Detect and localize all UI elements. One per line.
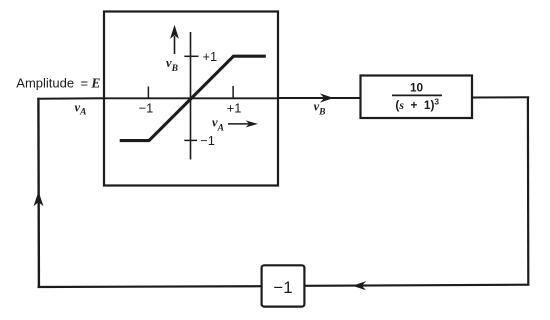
- svg-text:vB: vB: [166, 56, 178, 74]
- svg-text:−1: −1: [139, 101, 154, 116]
- svg-text:−1: −1: [273, 278, 292, 297]
- svg-text:−1: −1: [200, 133, 215, 148]
- wire: right vertical feedback: [527, 97, 530, 285]
- tick -1 on vB axis: [184, 139, 197, 141]
- tick +1 on vB axis: [184, 55, 198, 57]
- svg-text:vA: vA: [75, 101, 87, 118]
- graph x-axis (vA axis) through box: [104, 97, 278, 99]
- svg-text:vB: vB: [314, 99, 326, 117]
- wire: left vertical feedback up to input: [37, 98, 40, 288]
- svg-text:=: =: [81, 75, 89, 90]
- svg-text:+1: +1: [203, 49, 218, 64]
- wire: transfer block output to right vertical: [472, 96, 529, 98]
- arrowhead on bottom feedback wire: [352, 281, 366, 290]
- nonlinearity block N1 (saturation) box: [104, 12, 278, 186]
- label vA (axis) with direction arrow: [212, 116, 258, 134]
- graph y-axis (vB axis): [190, 32, 192, 160]
- svg-text:10: 10: [410, 80, 424, 94]
- vB axis direction arrow: [170, 25, 179, 54]
- tick +1 on vA axis: [232, 86, 234, 98]
- fraction bar: [392, 94, 442, 96]
- wire: input vA horizontal segment into nonlinearity box: [37, 97, 104, 99]
- tick -1 on vA axis: [147, 87, 149, 99]
- svg-text:Amplitude: Amplitude: [16, 75, 74, 90]
- wire: vB from nonlinearity box to transfer block: [278, 97, 361, 99]
- arrowhead up on left feedback wire: [34, 192, 44, 207]
- svg-text:(s + 1)3: (s + 1)3: [395, 97, 439, 112]
- transfer function block G1: 10/(s+1)^3: [361, 76, 473, 119]
- svg-text:+1: +1: [227, 100, 242, 115]
- arrowhead on vB wire: [320, 93, 334, 102]
- wire: bottom left segment from -1 block: [38, 285, 262, 288]
- saturation characteristic curve: [120, 56, 266, 140]
- feedback gain block H1: -1: [262, 265, 305, 306]
- svg-text:E: E: [90, 75, 100, 90]
- wire: bottom right segment into -1 block: [305, 285, 529, 286]
- svg-text:vA: vA: [212, 116, 224, 134]
